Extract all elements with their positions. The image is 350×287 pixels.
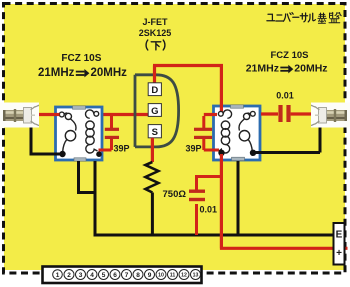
junction dot T1 secondary bottom	[96, 151, 102, 157]
transformer T1 box	[56, 106, 103, 161]
J-FET U1 outline	[135, 75, 179, 147]
svg-text:S: S	[152, 127, 158, 138]
wire: T2 bottom tab to bus	[237, 161, 240, 235]
pin box S	[148, 125, 161, 139]
svg-text:5: 5	[102, 272, 106, 279]
output connector J2	[311, 103, 350, 128]
svg-text:9: 9	[148, 272, 152, 279]
svg-text:12: 12	[181, 273, 187, 279]
wire: resistor bottom to bus	[151, 193, 154, 236]
ニ	[276, 15, 284, 21]
svg-text:8: 8	[136, 272, 140, 279]
svg-text:20MHz: 20MHz	[294, 63, 327, 75]
バ	[284, 13, 294, 22]
pin box D	[148, 83, 161, 96]
capacitor C3 0.01	[189, 177, 223, 236]
svg-text:750Ω: 750Ω	[163, 189, 187, 200]
T1 secondary winding	[86, 110, 99, 153]
svg-text:0.01: 0.01	[276, 91, 294, 101]
svg-text:FCZ 10S: FCZ 10S	[271, 50, 309, 61]
svg-text:2SK125: 2SK125	[139, 28, 172, 38]
svg-text:10: 10	[158, 273, 164, 279]
transformer T2 box	[214, 105, 261, 161]
svg-text:21MHz: 21MHz	[246, 63, 279, 75]
wire: red stub into T1 primary	[54, 113, 60, 116]
svg-text:D: D	[151, 85, 158, 96]
wire: red supply from T2 primary bottom to battery +	[220, 154, 348, 248]
wire: T1 bottom pin B down to ground bus	[94, 161, 97, 235]
wire: G wire from T1 secondary to FET gate	[101, 113, 148, 116]
wire: red stub C2 top into T2	[212, 113, 218, 116]
svg-text:1: 1	[56, 272, 60, 279]
wire: T2 secondary bottom to output connector	[254, 124, 320, 153]
junction dot T2 secondary bottom	[250, 150, 256, 156]
サ	[300, 13, 307, 22]
wire: red stub T1 secondary bottom	[99, 149, 105, 152]
label （下）	[146, 40, 165, 50]
svg-text:39P: 39P	[186, 144, 202, 154]
svg-text:E: E	[336, 230, 343, 241]
battery box E	[334, 223, 345, 265]
svg-text:7: 7	[125, 272, 129, 279]
svg-text:FCZ 10S: FCZ 10S	[61, 53, 101, 64]
T2 primary winding	[218, 110, 231, 153]
title ユニバーサル基盤	[267, 12, 341, 23]
wire: source stub red	[151, 138, 154, 162]
基	[318, 13, 326, 23]
svg-text:20MHz: 20MHz	[91, 67, 128, 79]
svg-text:13: 13	[193, 273, 199, 279]
T2 secondary winding	[239, 111, 255, 151]
ユ	[267, 14, 275, 21]
svg-text:4: 4	[90, 272, 94, 279]
wire: T1 secondary bottom to cap C1	[98, 138, 112, 150]
junction dot T2 primary bottom	[218, 150, 224, 156]
wire: drain stub	[153, 64, 223, 112]
resistor R1 750 ohm	[145, 162, 158, 193]
svg-text:0.01: 0.01	[200, 205, 218, 215]
svg-text:11: 11	[170, 273, 176, 279]
wire: red stub C2 bottom into T2	[212, 149, 220, 152]
wire: red into T2 top	[220, 105, 223, 113]
capacitor C4 0.01	[278, 105, 317, 122]
ー	[293, 16, 299, 18]
svg-text:2: 2	[67, 272, 71, 279]
junction dot T1 primary bottom	[59, 151, 65, 157]
盤	[329, 12, 341, 22]
svg-text:39P: 39P	[114, 144, 130, 154]
svg-text:21MHz: 21MHz	[38, 67, 75, 79]
svg-text:3: 3	[79, 272, 83, 279]
capacitor C2 39P	[194, 115, 220, 151]
capacitor C1 39P	[105, 116, 119, 139]
svg-text:6: 6	[113, 272, 117, 279]
input connector J1	[0, 103, 39, 128]
wire: input red from connector to T1 primary	[32, 113, 58, 116]
terminal strip 1-13	[43, 267, 202, 284]
wire: input black from connector down to T1 primary bottom	[30, 122, 61, 154]
pin box G	[148, 104, 161, 117]
ground bus	[94, 234, 335, 237]
wire: T1 bottom pin A down-right	[79, 161, 96, 193]
ル	[308, 13, 315, 22]
terminal numbers 1-13	[53, 270, 201, 280]
T1 primary winding	[59, 112, 76, 151]
wire: black stub into T1 primary bottom	[54, 153, 60, 156]
svg-text:J-FET: J-FET	[142, 17, 168, 27]
svg-text:G: G	[151, 106, 158, 117]
svg-text:+: +	[336, 248, 342, 259]
wire: T2 output red to cap C4	[261, 112, 278, 115]
